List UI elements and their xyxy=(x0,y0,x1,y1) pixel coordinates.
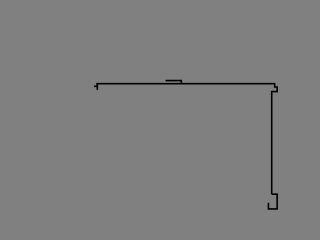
wire: hop bump over main run xyxy=(166,81,182,84)
wire: main horizontal run xyxy=(96,83,274,85)
wire: top-right jog xyxy=(272,83,277,92)
wire: left pin stub xyxy=(96,83,98,90)
wire: left pin tick xyxy=(94,85,98,87)
wire: bottom open hook xyxy=(268,194,277,209)
wire: long vertical run xyxy=(271,91,273,194)
